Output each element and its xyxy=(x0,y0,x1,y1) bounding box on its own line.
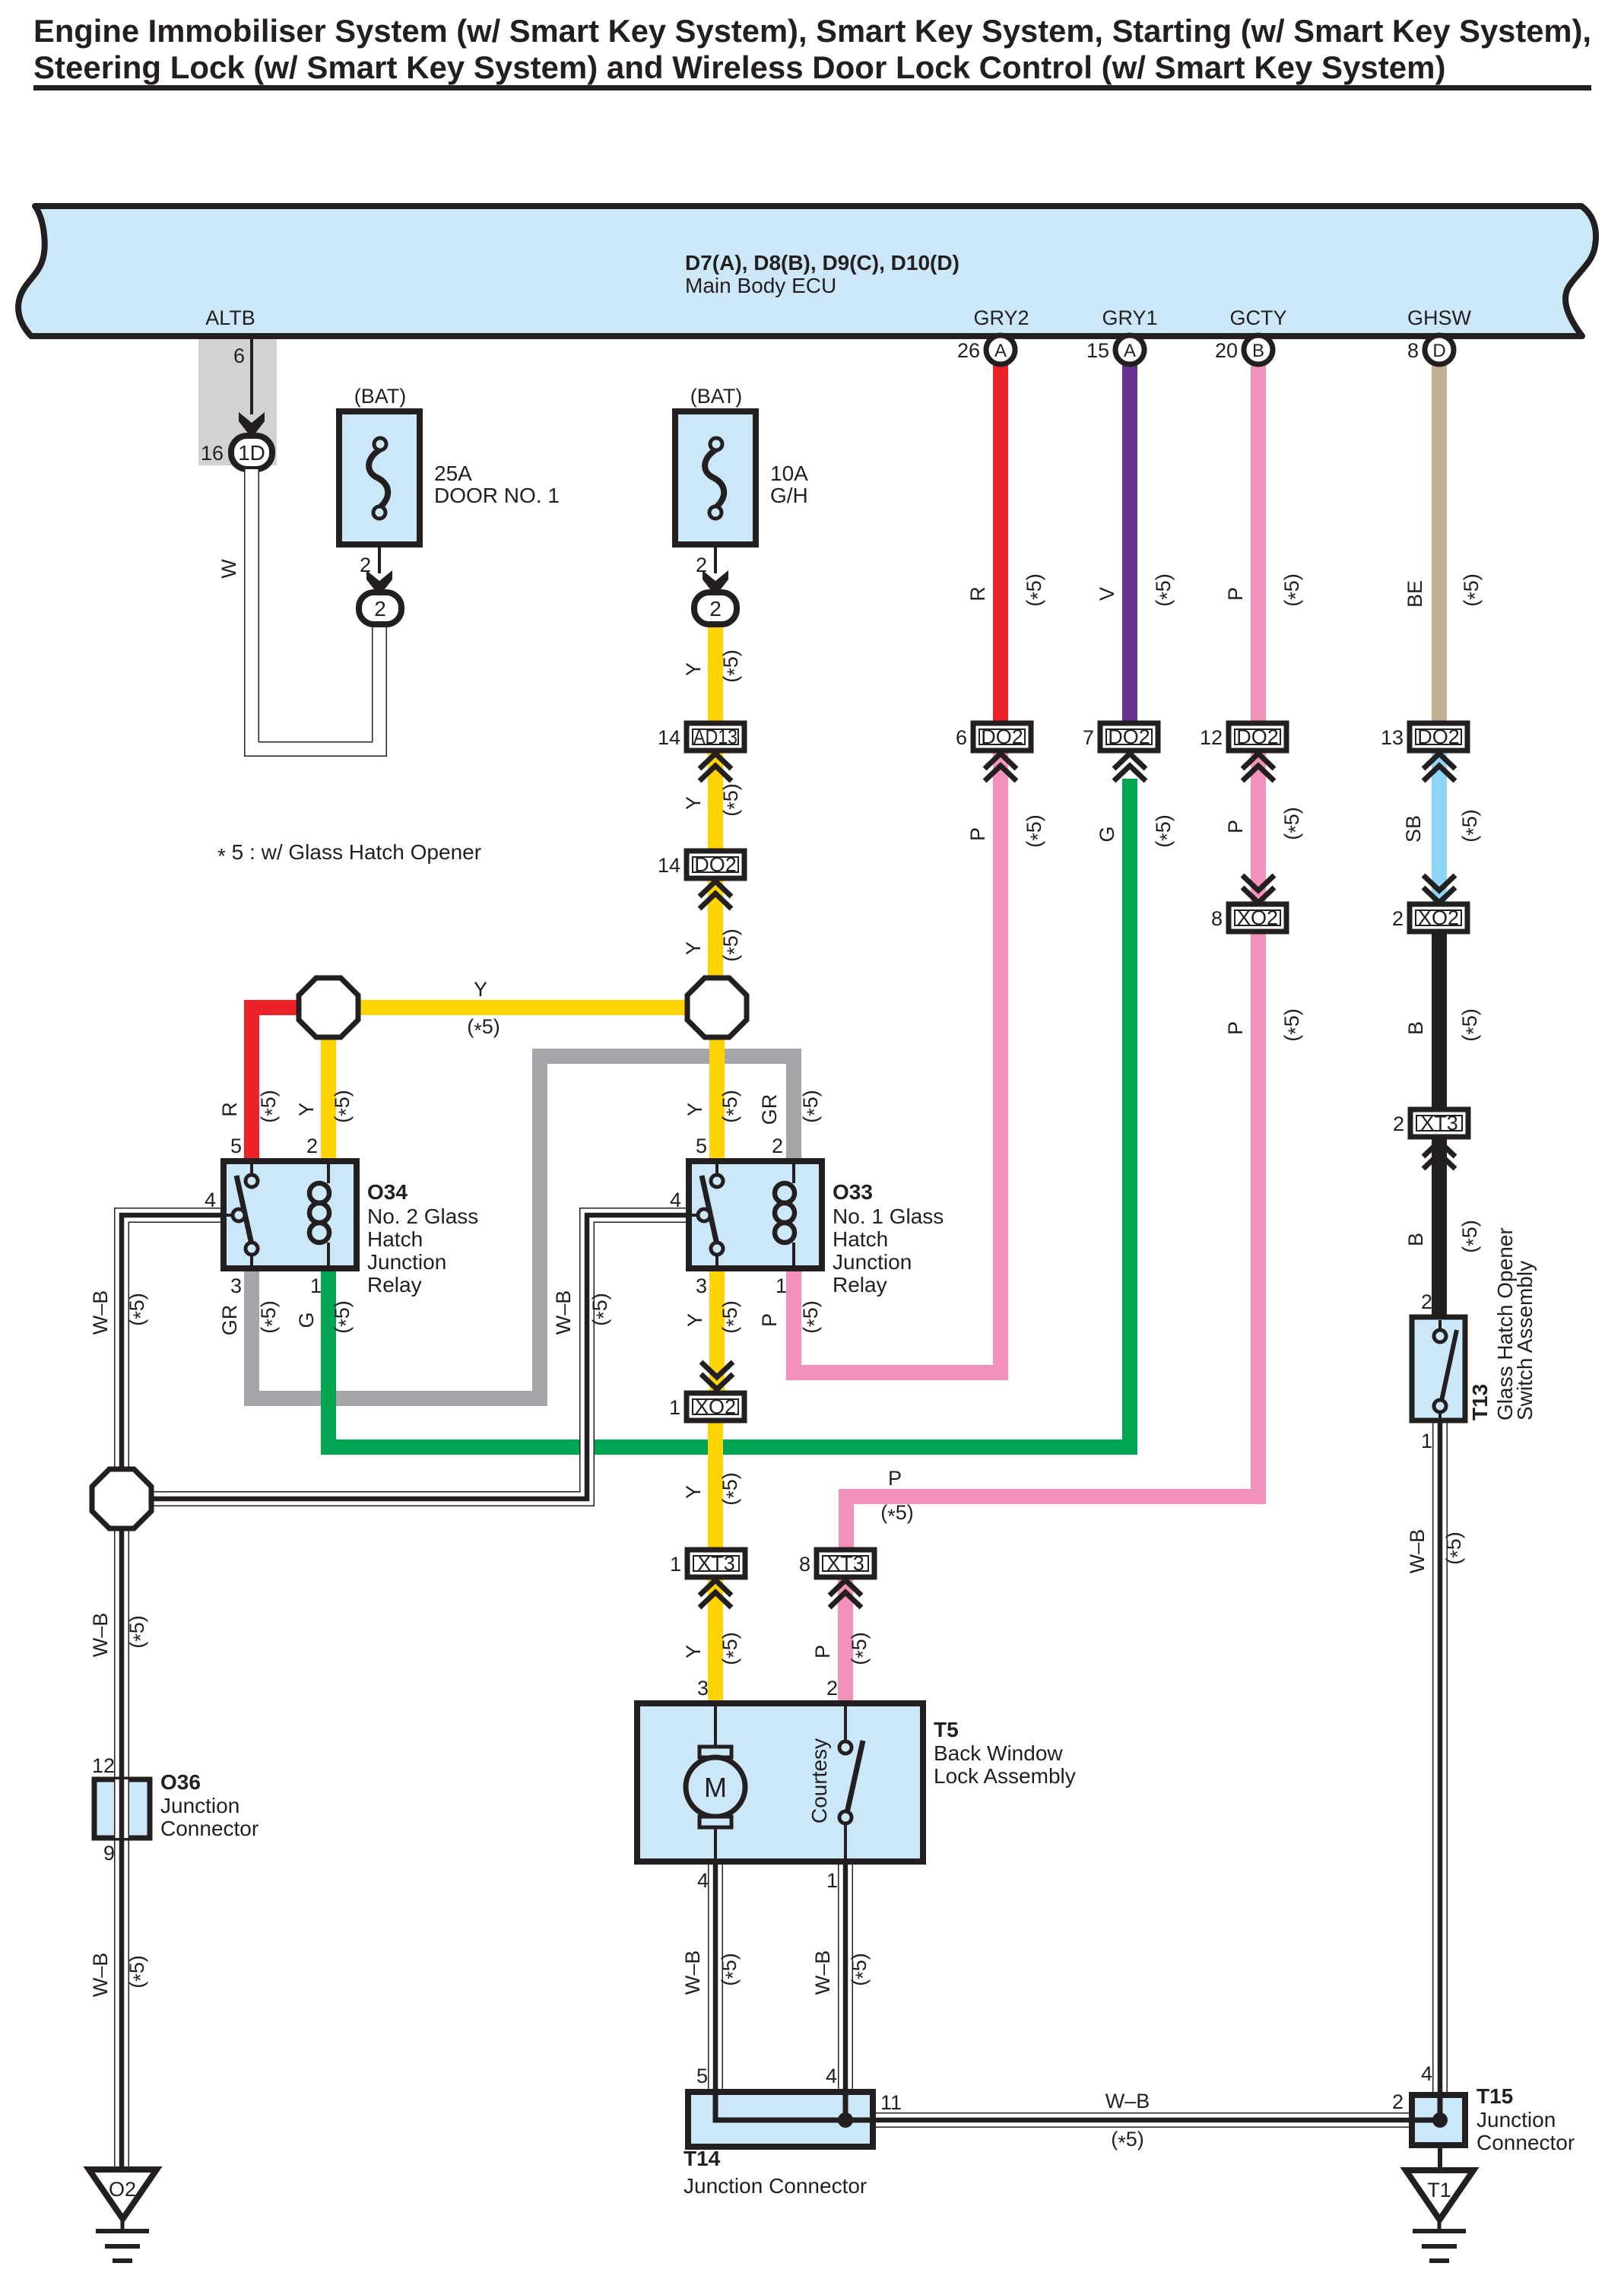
svg-text:(*5): (*5) xyxy=(125,1293,152,1326)
svg-text:No. 2 Glass: No. 2 Glass xyxy=(367,1205,478,1228)
svg-text:Y: Y xyxy=(682,796,705,810)
svg-text:* 5 : w/ Glass Hatch Opener: * 5 : w/ Glass Hatch Opener xyxy=(217,840,481,868)
svg-text:14: 14 xyxy=(658,726,680,749)
svg-text:G/H: G/H xyxy=(770,484,808,507)
chevron above 1 XO2 xyxy=(701,1362,733,1389)
connector oval 2 (fuse 1) xyxy=(359,592,401,624)
svg-text:(*5): (*5) xyxy=(1280,573,1307,607)
junction octagon lower-left xyxy=(92,1469,151,1528)
svg-text:P: P xyxy=(1224,1021,1247,1035)
chevron below 7 DO2 xyxy=(1114,754,1146,781)
svg-text:(*5): (*5) xyxy=(331,1090,357,1123)
svg-text:(*5): (*5) xyxy=(718,1472,745,1506)
svg-text:(BAT): (BAT) xyxy=(354,385,407,408)
svg-text:5: 5 xyxy=(696,2065,708,2087)
svg-text:P: P xyxy=(811,1645,834,1658)
connector 2 XT3 xyxy=(1393,1109,1468,1137)
svg-text:1: 1 xyxy=(776,1274,787,1297)
junction octagon right xyxy=(687,978,747,1037)
svg-text:Hatch: Hatch xyxy=(833,1227,888,1251)
svg-text:Junction: Junction xyxy=(367,1250,446,1274)
connector 8 XO2 xyxy=(1211,904,1286,932)
svg-text:P: P xyxy=(1224,820,1247,833)
svg-text:(*5): (*5) xyxy=(467,1015,500,1042)
wire P GCTY to DO2 xyxy=(1251,363,1266,726)
svg-text:(*5): (*5) xyxy=(719,783,746,817)
svg-text:9: 9 xyxy=(103,1842,115,1865)
svg-text:O34: O34 xyxy=(367,1180,408,1204)
T5 name label xyxy=(934,1718,1076,1788)
svg-text:GR: GR xyxy=(758,1094,781,1125)
svg-text:XT3: XT3 xyxy=(697,1552,735,1575)
wire B XT3 to T13 pin 2 xyxy=(1432,1134,1447,1320)
junction connector T14 xyxy=(688,2092,873,2147)
svg-text:Engine Immobiliser System (w/: Engine Immobiliser System (w/ Smart Key … xyxy=(33,13,1591,49)
svg-text:GR: GR xyxy=(218,1305,241,1336)
svg-text:4: 4 xyxy=(205,1189,216,1211)
svg-text:(*5): (*5) xyxy=(125,1955,152,1989)
wire Y AD13 to DO2 xyxy=(708,747,723,854)
chevron above 8 XO2 xyxy=(1242,875,1274,903)
svg-text:4: 4 xyxy=(697,1869,709,1892)
svg-text:(*5): (*5) xyxy=(719,649,746,683)
wire Y O33 pin 3 to T5 pin 3 xyxy=(715,1265,717,1706)
svg-text:(*5): (*5) xyxy=(799,1300,826,1334)
svg-text:O2: O2 xyxy=(109,2178,136,2201)
svg-text:W–B: W–B xyxy=(89,1290,112,1335)
svg-text:Junction: Junction xyxy=(1477,2108,1556,2131)
wire W-B T13 pin 1 to T15 xyxy=(1432,1417,1448,2098)
gray highlight behind ALTB pin xyxy=(198,339,277,465)
svg-text:GRY1: GRY1 xyxy=(1102,306,1157,329)
svg-text:Switch Assembly: Switch Assembly xyxy=(1513,1261,1537,1420)
svg-text:W–B: W–B xyxy=(811,1950,834,1995)
arrow into oval 2 (fuse 1) xyxy=(366,570,392,596)
title underline xyxy=(33,85,1591,90)
relay O33 No.1 Glass Hatch Junction Relay xyxy=(689,1161,822,1268)
svg-text:13: 13 xyxy=(1381,726,1404,749)
wire B XO2 to XT3 xyxy=(1432,928,1447,1113)
svg-text:XO2: XO2 xyxy=(1418,906,1459,929)
svg-text:(BAT): (BAT) xyxy=(690,385,743,408)
wire Y DO2 to octagon to O33 pin 5 xyxy=(715,875,717,1164)
connector 1 XO2 xyxy=(669,1393,744,1420)
svg-text:Y: Y xyxy=(684,1103,706,1116)
svg-text:7: 7 xyxy=(1083,726,1094,749)
svg-text:B: B xyxy=(1252,341,1264,361)
svg-text:3: 3 xyxy=(696,1274,707,1297)
wire below fuse 1 xyxy=(378,544,381,573)
wire from ALTB pin 6 xyxy=(250,339,253,414)
svg-text:GRY2: GRY2 xyxy=(973,306,1029,329)
svg-text:(*5): (*5) xyxy=(1152,573,1178,607)
connector oval 1D xyxy=(231,436,272,469)
svg-text:2: 2 xyxy=(1392,907,1404,930)
wire Y octagon to octagon xyxy=(328,1000,717,1015)
svg-text:(*5): (*5) xyxy=(718,1300,745,1334)
ground T1 xyxy=(1406,2170,1473,2261)
svg-text:2: 2 xyxy=(1393,1113,1404,1135)
svg-text:B: B xyxy=(1404,1021,1427,1035)
svg-text:(*5): (*5) xyxy=(1280,1008,1307,1042)
svg-text:8: 8 xyxy=(799,1553,810,1576)
relay O34 No.2 Glass Hatch Junction Relay name label xyxy=(367,1180,478,1297)
svg-text:W–B: W–B xyxy=(1406,1529,1429,1574)
svg-text:O36: O36 xyxy=(160,1770,201,1794)
svg-text:14: 14 xyxy=(658,854,680,877)
svg-text:Courtesy: Courtesy xyxy=(807,1738,831,1824)
wire P from DO2 to O33 pin 1 xyxy=(794,747,1001,1373)
svg-text:Connector: Connector xyxy=(160,1817,259,1840)
svg-text:(*5): (*5) xyxy=(588,1293,615,1326)
chevron below 2 XT3 xyxy=(1423,1141,1455,1169)
svg-text:10A: 10A xyxy=(770,462,808,485)
svg-text:B: B xyxy=(1404,1233,1427,1246)
svg-text:4: 4 xyxy=(670,1189,681,1211)
svg-text:15: 15 xyxy=(1086,339,1109,362)
chevron below 6 DO2 xyxy=(985,754,1017,781)
svg-text:1: 1 xyxy=(1421,1430,1432,1452)
ECU pin 20 B (GCTY) xyxy=(1215,335,1273,364)
relay O34 No.2 Glass Hatch Junction Relay xyxy=(224,1161,357,1268)
svg-text:(*5): (*5) xyxy=(257,1090,284,1123)
O36 name label xyxy=(160,1770,259,1840)
svg-text:6: 6 xyxy=(233,344,245,367)
svg-text:Junction: Junction xyxy=(160,1794,239,1817)
svg-text:DO2: DO2 xyxy=(981,725,1023,748)
wire G from GRY1/DO2 to O34 pin 1 xyxy=(328,779,1130,1447)
wire W-B O33 pin 4 to octagon xyxy=(149,1215,693,1499)
svg-text:1D: 1D xyxy=(238,441,265,465)
svg-text:8: 8 xyxy=(1211,907,1223,930)
svg-text:Connector: Connector xyxy=(1477,2131,1575,2154)
svg-text:4: 4 xyxy=(1421,2062,1432,2085)
svg-text:2: 2 xyxy=(826,1677,838,1700)
back window lock assembly T5 xyxy=(637,1703,923,1862)
relay O33 No.1 Glass Hatch Junction Relay name label xyxy=(833,1180,944,1297)
svg-text:T1: T1 xyxy=(1427,2179,1451,2201)
svg-text:11: 11 xyxy=(880,2091,902,2114)
wire W-B T14 to T15 xyxy=(873,2112,1415,2128)
svg-text:W: W xyxy=(217,559,240,579)
svg-text:XT3: XT3 xyxy=(826,1552,864,1575)
svg-text:A: A xyxy=(994,341,1007,361)
fuse 10A G/H xyxy=(675,411,756,544)
svg-text:P: P xyxy=(758,1313,781,1327)
svg-text:12: 12 xyxy=(1200,726,1223,749)
svg-text:2: 2 xyxy=(772,1135,783,1157)
wire GR from O34 pin 3 to O33 pin 2 xyxy=(252,1056,794,1398)
svg-text:(*5): (*5) xyxy=(1152,814,1178,848)
svg-text:Back Window: Back Window xyxy=(934,1741,1063,1765)
svg-text:G: G xyxy=(295,1312,318,1328)
svg-text:(*5): (*5) xyxy=(718,1090,745,1123)
fuse 25A DOOR NO.1 xyxy=(339,411,420,544)
connector 14 DO2 xyxy=(658,851,744,878)
svg-text:A: A xyxy=(1124,341,1136,361)
svg-text:P: P xyxy=(966,827,989,841)
svg-text:T5: T5 xyxy=(934,1718,959,1741)
svg-text:Y: Y xyxy=(682,1645,705,1658)
svg-text:T15: T15 xyxy=(1477,2084,1513,2108)
svg-text:P: P xyxy=(888,1467,902,1490)
svg-text:Main Body ECU: Main Body ECU xyxy=(685,274,836,297)
svg-text:Y: Y xyxy=(474,978,487,1001)
connector 8 XT3 xyxy=(799,1550,874,1577)
svg-text:4: 4 xyxy=(826,2065,837,2087)
svg-text:D: D xyxy=(1432,341,1445,361)
wire R octagon to O34 pin 5 xyxy=(252,1008,301,1164)
svg-text:1: 1 xyxy=(669,1396,680,1419)
wire W from 1D to DOOR fuse xyxy=(252,469,379,749)
junction octagon left xyxy=(299,978,358,1037)
junction connector O36 xyxy=(94,1779,150,1838)
svg-text:3: 3 xyxy=(697,1677,709,1700)
svg-text:(*5): (*5) xyxy=(1111,2128,1144,2154)
svg-text:3: 3 xyxy=(230,1274,242,1297)
svg-text:(*5): (*5) xyxy=(1023,814,1049,848)
wire T15 to ground T1 xyxy=(1438,2145,1442,2170)
ECU pin 26 A (GRY2) xyxy=(957,335,1015,364)
svg-text:1: 1 xyxy=(826,1869,838,1892)
connector 7 DO2 xyxy=(1083,723,1158,751)
svg-text:(*5): (*5) xyxy=(880,1501,914,1528)
svg-text:(*5): (*5) xyxy=(718,1953,744,1986)
svg-text:1: 1 xyxy=(310,1274,322,1297)
svg-text:2: 2 xyxy=(1392,2090,1404,2113)
wire P DO2 to XO2 xyxy=(1251,747,1266,907)
svg-text:2: 2 xyxy=(306,1135,318,1157)
connector oval 2 (fuse 2) xyxy=(694,592,737,624)
svg-text:12: 12 xyxy=(92,1754,115,1777)
wire SB DO2 to XO2 xyxy=(1432,747,1447,907)
chevron below AD13 xyxy=(699,754,731,781)
svg-text:W–B: W–B xyxy=(552,1290,575,1335)
svg-text:BE: BE xyxy=(1404,580,1426,608)
chevron below 12 DO2 xyxy=(1242,754,1274,781)
svg-text:2: 2 xyxy=(374,597,386,621)
svg-text:6: 6 xyxy=(956,726,967,749)
svg-text:No. 1 Glass: No. 1 Glass xyxy=(833,1205,944,1228)
svg-text:T13: T13 xyxy=(1468,1384,1492,1420)
ECU pin 8 D (GHSW) xyxy=(1407,335,1454,364)
svg-text:(*5): (*5) xyxy=(1023,573,1049,607)
svg-text:ALTB: ALTB xyxy=(205,306,255,329)
svg-text:(*5): (*5) xyxy=(125,1615,152,1649)
svg-text:XO2: XO2 xyxy=(1237,906,1278,929)
T15 name label xyxy=(1477,2084,1575,2154)
ground O2 xyxy=(89,2169,157,2261)
connector 2 XO2 xyxy=(1392,904,1467,932)
wire P XO2 to XT3 to T5 pin 2 xyxy=(846,928,1258,1553)
wire BE GHSW to DO2 xyxy=(1432,363,1447,726)
svg-text:W–B: W–B xyxy=(89,1613,112,1658)
svg-text:XO2: XO2 xyxy=(695,1395,736,1418)
svg-text:Lock Assembly: Lock Assembly xyxy=(934,1764,1076,1788)
wire W-B T5 pin 1 to T14 xyxy=(838,1858,853,2095)
svg-text:5: 5 xyxy=(696,1135,707,1157)
svg-text:GCTY: GCTY xyxy=(1229,306,1286,329)
svg-text:(*5): (*5) xyxy=(1458,1008,1485,1042)
svg-text:XT3: XT3 xyxy=(1420,1112,1458,1135)
wire below fuse 2 xyxy=(714,544,717,573)
wire W-B T5 pin 4 to T14 xyxy=(708,1858,723,2095)
wire V GRY1 to DO2 xyxy=(1122,363,1137,726)
svg-text:G: G xyxy=(1096,826,1118,842)
connector 13 DO2 xyxy=(1381,723,1467,751)
svg-text:SB: SB xyxy=(1402,815,1425,843)
junction connector T15 xyxy=(1412,2095,1465,2145)
svg-text:(*5): (*5) xyxy=(719,928,746,962)
svg-text:25A: 25A xyxy=(434,462,472,485)
svg-text:Y: Y xyxy=(682,941,705,955)
svg-text:Y: Y xyxy=(295,1103,318,1116)
svg-text:(*5): (*5) xyxy=(257,1300,284,1334)
svg-text:(*5): (*5) xyxy=(1458,1220,1485,1253)
svg-text:2: 2 xyxy=(709,597,722,621)
wire R GRY2 to DO2 xyxy=(993,363,1008,726)
svg-text:O33: O33 xyxy=(833,1180,873,1204)
chevron above 2 XO2 xyxy=(1423,875,1455,903)
svg-text:R: R xyxy=(966,586,989,601)
svg-text:(*5): (*5) xyxy=(1460,573,1486,607)
svg-text:Junction Connector: Junction Connector xyxy=(684,2174,867,2198)
connector 1 XT3 xyxy=(670,1550,745,1577)
svg-text:(*5): (*5) xyxy=(1442,1532,1469,1565)
svg-text:(*5): (*5) xyxy=(331,1300,357,1334)
T14 name label xyxy=(684,2147,867,2198)
svg-text:(*5): (*5) xyxy=(1458,809,1485,843)
svg-text:V: V xyxy=(1096,587,1118,601)
svg-text:W–B: W–B xyxy=(1105,2090,1150,2112)
svg-text:DO2: DO2 xyxy=(694,853,737,876)
svg-text:DO2: DO2 xyxy=(1236,725,1279,748)
connector 14 AD13 xyxy=(658,723,744,751)
wire P XT3 to T5 pin 2 xyxy=(838,1574,853,1706)
svg-text:W–B: W–B xyxy=(89,1953,112,1998)
svg-text:16: 16 xyxy=(201,442,224,465)
glass hatch opener switch assembly T13 xyxy=(1412,1317,1465,1420)
svg-text:P: P xyxy=(1224,587,1247,601)
svg-text:Hatch: Hatch xyxy=(367,1227,423,1251)
chevron below 14 DO2 xyxy=(699,881,731,909)
svg-text:8: 8 xyxy=(1407,339,1419,362)
wire Y fuse2 to AD13 xyxy=(708,624,723,726)
svg-text:D7(A), D8(B), D9(C), D10(D): D7(A), D8(B), D9(C), D10(D) xyxy=(685,251,959,275)
svg-text:Y: Y xyxy=(682,1485,705,1499)
wire W-B through O36 xyxy=(114,1779,129,1838)
chevron below 13 DO2 xyxy=(1423,754,1455,781)
svg-text:Y: Y xyxy=(684,1313,706,1327)
svg-text:GHSW: GHSW xyxy=(1407,306,1472,329)
svg-text:R: R xyxy=(218,1102,241,1117)
svg-text:(*5): (*5) xyxy=(848,1632,874,1665)
svg-text:Relay: Relay xyxy=(833,1273,887,1297)
svg-text:(*5): (*5) xyxy=(848,1953,874,1986)
chevron below 8 XT3 xyxy=(829,1580,861,1608)
svg-text:DO2: DO2 xyxy=(1108,725,1150,748)
svg-text:5: 5 xyxy=(230,1135,242,1157)
arrow into connector 1D xyxy=(239,412,265,438)
svg-text:Steering Lock (w/ Smart Key Sy: Steering Lock (w/ Smart Key System) and … xyxy=(33,49,1445,85)
svg-text:Relay: Relay xyxy=(367,1273,422,1297)
svg-text:20: 20 xyxy=(1215,339,1238,362)
svg-text:2: 2 xyxy=(1421,1290,1432,1313)
svg-text:(*5): (*5) xyxy=(1280,807,1307,840)
svg-text:M: M xyxy=(704,1772,727,1803)
svg-text:T14: T14 xyxy=(684,2147,721,2170)
svg-text:26: 26 xyxy=(957,339,980,362)
svg-text:1: 1 xyxy=(670,1553,681,1576)
ECU pin 15 A (GRY1) xyxy=(1086,335,1144,364)
connector 6 DO2 xyxy=(956,723,1031,751)
arrow into oval 2 (fuse 2) xyxy=(703,570,728,596)
svg-text:(*5): (*5) xyxy=(718,1632,745,1665)
svg-text:DO2: DO2 xyxy=(1417,725,1460,748)
chevron below 1 XT3 xyxy=(699,1580,731,1608)
svg-text:AD13: AD13 xyxy=(693,725,737,748)
svg-text:Y: Y xyxy=(682,662,705,676)
wire W-B O34 pin 4 to ground O2 xyxy=(122,1215,227,2169)
svg-text:DOOR NO. 1: DOOR NO. 1 xyxy=(434,484,560,507)
Main Body ECU (D7,D8,D9,D10) bar xyxy=(18,206,1596,336)
svg-text:Junction: Junction xyxy=(833,1250,912,1274)
wire Y octagon down to O34 pin 2 xyxy=(321,1008,336,1164)
svg-text:W–B: W–B xyxy=(681,1950,704,1995)
connector 12 DO2 xyxy=(1200,723,1286,751)
svg-text:(*5): (*5) xyxy=(799,1090,826,1123)
